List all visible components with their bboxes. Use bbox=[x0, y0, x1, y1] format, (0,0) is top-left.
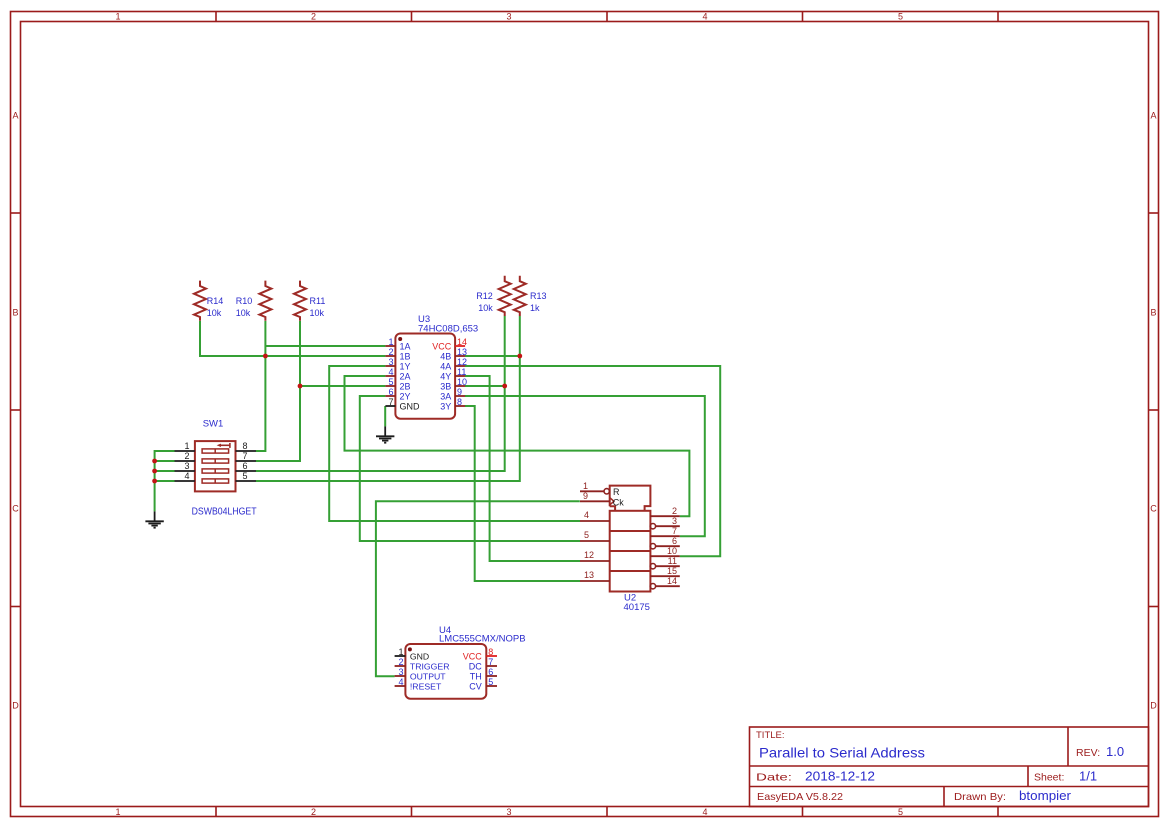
svg-text:2018-12-12: 2018-12-12 bbox=[805, 769, 875, 784]
svg-text:5: 5 bbox=[898, 807, 903, 817]
svg-text:LMC555CMX/NOPB: LMC555CMX/NOPB bbox=[439, 634, 526, 645]
U2 pin1 R bbox=[580, 490, 604, 492]
wire R10 down to SW1 pin8 bbox=[256, 321, 265, 451]
svg-text:8: 8 bbox=[457, 397, 462, 407]
node R13/4B junction bbox=[517, 354, 522, 359]
svg-text:5: 5 bbox=[584, 530, 589, 540]
svg-text:REV:: REV: bbox=[1076, 747, 1100, 759]
svg-text:10k: 10k bbox=[310, 308, 325, 318]
timer U4 LMC555CMX/NOPB bbox=[395, 625, 526, 699]
svg-text:OUTPUT: OUTPUT bbox=[410, 671, 446, 681]
svg-text:10k: 10k bbox=[207, 308, 222, 318]
node SW1 bus p3 junction bbox=[152, 469, 157, 474]
svg-text:1/1: 1/1 bbox=[1079, 769, 1097, 784]
node SW1 bus p4 junction bbox=[152, 479, 157, 484]
svg-text:2A: 2A bbox=[400, 371, 411, 381]
svg-text:GND: GND bbox=[400, 401, 421, 411]
svg-text:10: 10 bbox=[457, 377, 467, 387]
svg-text:A: A bbox=[12, 111, 18, 121]
svg-text:3B: 3B bbox=[440, 381, 451, 391]
wire SW1 pin3 stub bbox=[155, 470, 175, 472]
svg-text:74HC08D,653: 74HC08D,653 bbox=[418, 324, 478, 335]
svg-text:R11: R11 bbox=[310, 296, 326, 306]
resistor R10 10k bbox=[259, 281, 271, 321]
svg-text:Ck: Ck bbox=[613, 497, 624, 507]
svg-text:1: 1 bbox=[583, 481, 588, 491]
svg-text:6: 6 bbox=[672, 536, 677, 546]
svg-text:13: 13 bbox=[457, 347, 467, 357]
svg-text:5: 5 bbox=[243, 471, 248, 481]
svg-text:2: 2 bbox=[388, 347, 393, 357]
resistor R11 10k bbox=[294, 281, 306, 321]
svg-text:2B: 2B bbox=[400, 381, 411, 391]
svg-text:3Y: 3Y bbox=[440, 401, 451, 411]
svg-text:10k: 10k bbox=[478, 303, 493, 313]
svg-text:12: 12 bbox=[457, 357, 467, 367]
svg-text:5: 5 bbox=[488, 677, 493, 687]
wire R10/SW1 pin8 to U3 pin1 1A bbox=[265, 345, 385, 347]
svg-text:6: 6 bbox=[243, 461, 248, 471]
svg-text:VCC: VCC bbox=[463, 651, 483, 661]
ground (U3 GND) bbox=[384, 426, 386, 436]
ground (SW1 common) bbox=[154, 511, 156, 521]
wire R11 to U3 pin5 2B bbox=[300, 385, 385, 387]
U2 pin9 Ck bbox=[580, 500, 610, 502]
svg-text:btompier: btompier bbox=[1019, 788, 1072, 803]
svg-text:2: 2 bbox=[311, 807, 316, 817]
svg-text:1: 1 bbox=[398, 647, 403, 657]
svg-text:11: 11 bbox=[668, 556, 677, 566]
svg-text:2: 2 bbox=[672, 506, 677, 516]
svg-text:5: 5 bbox=[388, 377, 393, 387]
svg-text:C: C bbox=[12, 504, 19, 514]
svg-text:10: 10 bbox=[667, 546, 677, 556]
wire SW1 pin4 stub bbox=[155, 480, 175, 482]
wire U3 pin3 1Y to U2 pin4 D1 bbox=[329, 366, 580, 521]
wire U3 pin11 4Y to U2 pin12 D3 bbox=[465, 376, 580, 561]
wire SW1 pin6 to R12 bbox=[256, 316, 505, 471]
svg-text:R10: R10 bbox=[236, 296, 253, 306]
resistor R14 10k bbox=[194, 281, 206, 321]
wire U3 pin6 2Y to U2 pin5 D2 bbox=[360, 396, 580, 541]
svg-text:4: 4 bbox=[702, 807, 707, 817]
svg-text:4: 4 bbox=[184, 471, 189, 481]
svg-text:7: 7 bbox=[672, 526, 677, 536]
svg-text:4: 4 bbox=[398, 677, 403, 687]
node R14/R10/1B junction bbox=[263, 354, 268, 359]
wire U4 pin3 OUTPUT to U2 pin9 Ck bbox=[376, 501, 580, 676]
svg-text:Date:: Date: bbox=[756, 772, 792, 784]
svg-text:1A: 1A bbox=[400, 341, 411, 351]
svg-text:2Y: 2Y bbox=[400, 391, 411, 401]
svg-text:R: R bbox=[613, 487, 620, 497]
svg-text:4: 4 bbox=[584, 510, 589, 520]
svg-text:6: 6 bbox=[488, 667, 493, 677]
svg-text:R14: R14 bbox=[207, 296, 224, 306]
node R12/3B junction bbox=[502, 384, 507, 389]
svg-text:Sheet:: Sheet: bbox=[1034, 772, 1064, 784]
svg-text:Drawn By:: Drawn By: bbox=[954, 791, 1006, 803]
svg-text:3: 3 bbox=[398, 667, 403, 677]
svg-text:11: 11 bbox=[457, 367, 466, 377]
wire U3 pin12 4A to U2 pin10 Q3 bbox=[465, 366, 720, 556]
svg-text:3: 3 bbox=[506, 12, 511, 22]
svg-text:40175: 40175 bbox=[624, 602, 650, 613]
svg-text:1k: 1k bbox=[530, 303, 540, 313]
wire U3 pin9 3A to U2 pin7 Q2 bbox=[465, 396, 705, 536]
svg-text:5: 5 bbox=[898, 12, 903, 22]
svg-text:3: 3 bbox=[506, 807, 511, 817]
svg-text:Parallel to Serial Address: Parallel to Serial Address bbox=[759, 745, 925, 761]
svg-text:3A: 3A bbox=[440, 391, 451, 401]
svg-text:3: 3 bbox=[672, 516, 677, 526]
node SW1 bus p2 junction bbox=[152, 459, 157, 464]
svg-text:12: 12 bbox=[584, 550, 594, 560]
svg-text:CV: CV bbox=[469, 681, 482, 691]
svg-text:R13: R13 bbox=[530, 291, 547, 301]
svg-text:15: 15 bbox=[667, 566, 677, 576]
resistor R13 1k bbox=[514, 276, 526, 316]
svg-text:D: D bbox=[1150, 701, 1157, 711]
title block bbox=[750, 727, 1149, 807]
svg-text:DC: DC bbox=[469, 661, 482, 671]
svg-text:1Y: 1Y bbox=[400, 361, 411, 371]
svg-text:B: B bbox=[1150, 308, 1156, 318]
svg-text:2: 2 bbox=[398, 657, 403, 667]
svg-text:2: 2 bbox=[184, 451, 189, 461]
wire R11 down to SW1 pin7 bbox=[256, 321, 300, 461]
svg-text:TH: TH bbox=[470, 671, 482, 681]
svg-text:9: 9 bbox=[457, 387, 462, 397]
svg-text:C: C bbox=[1150, 504, 1157, 514]
svg-text:2: 2 bbox=[311, 12, 316, 22]
svg-text:6: 6 bbox=[388, 387, 393, 397]
svg-text:B: B bbox=[12, 308, 18, 318]
wire U3 pin10 3B to R12 bbox=[465, 385, 505, 387]
flip-flop U2 40175 bbox=[580, 481, 680, 613]
svg-text:EasyEDA V5.8.22: EasyEDA V5.8.22 bbox=[757, 791, 843, 803]
U2 output pins 2,3,7,6,10,11,15,14 bbox=[650, 515, 680, 517]
svg-text:4: 4 bbox=[388, 367, 393, 377]
svg-text:14: 14 bbox=[457, 337, 467, 347]
node R11/2B junction bbox=[298, 384, 303, 389]
wire SW1 pin5 to R13 bbox=[256, 316, 520, 481]
svg-text:1: 1 bbox=[184, 441, 189, 451]
svg-text:4B: 4B bbox=[440, 351, 451, 361]
svg-text:4: 4 bbox=[702, 12, 707, 22]
wire U3 pin7 GND down bbox=[384, 406, 386, 426]
svg-text:1B: 1B bbox=[400, 351, 411, 361]
svg-text:A: A bbox=[1150, 111, 1156, 121]
svg-text:1: 1 bbox=[388, 337, 393, 347]
svg-text:4Y: 4Y bbox=[440, 371, 451, 381]
wire U3 pin4 2A to U2 pin2 Q1 bbox=[345, 376, 690, 516]
svg-text:3: 3 bbox=[184, 461, 189, 471]
svg-text:1: 1 bbox=[115, 807, 120, 817]
svg-text:7: 7 bbox=[388, 397, 393, 407]
svg-text:DSWB04LHGET: DSWB04LHGET bbox=[192, 506, 257, 517]
svg-text:GND: GND bbox=[410, 651, 429, 661]
svg-text:SW1: SW1 bbox=[203, 419, 224, 430]
svg-text:9: 9 bbox=[583, 491, 588, 501]
resistor R12 10k bbox=[499, 276, 511, 316]
svg-text:10k: 10k bbox=[236, 308, 251, 318]
svg-text:7: 7 bbox=[488, 657, 493, 667]
svg-text:TITLE:: TITLE: bbox=[756, 730, 785, 741]
wire U3 pin13 4B to R13 bbox=[465, 355, 520, 357]
U2 data pins 4,5,12,13 bbox=[580, 520, 610, 522]
svg-text:VCC: VCC bbox=[432, 341, 452, 351]
svg-text:!RESET: !RESET bbox=[410, 681, 442, 691]
svg-text:7: 7 bbox=[243, 451, 248, 461]
wire R14 to U3 pin2 1B bbox=[200, 321, 385, 356]
switch SW1 DSWB04LHGET bbox=[175, 419, 257, 518]
svg-text:8: 8 bbox=[243, 441, 248, 451]
wire SW1 pin2 stub bbox=[155, 460, 175, 462]
wire SW1 left bus to ground bbox=[155, 451, 175, 511]
svg-text:R12: R12 bbox=[476, 291, 493, 301]
svg-text:TRIGGER: TRIGGER bbox=[410, 661, 450, 671]
svg-text:3: 3 bbox=[388, 357, 393, 367]
svg-text:4A: 4A bbox=[440, 361, 451, 371]
svg-text:1.0: 1.0 bbox=[1106, 744, 1124, 759]
svg-text:1: 1 bbox=[115, 12, 120, 22]
svg-text:13: 13 bbox=[584, 570, 594, 580]
svg-text:8: 8 bbox=[488, 647, 493, 657]
svg-text:14: 14 bbox=[667, 576, 677, 586]
wire U3 pin8 3Y to U2 pin13 D4 bbox=[465, 406, 580, 581]
svg-text:D: D bbox=[12, 701, 19, 711]
op IC U3 74HC08D,653 bbox=[385, 314, 478, 419]
